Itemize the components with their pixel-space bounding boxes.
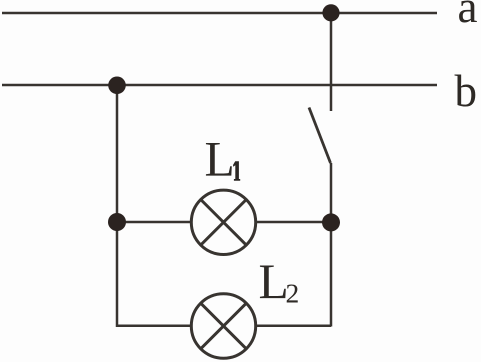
svg-text:a: a [458,0,478,32]
svg-text:b: b [455,66,478,116]
svg-text:2: 2 [286,277,300,308]
svg-text:L: L [205,131,235,186]
svg-text:L: L [259,254,289,309]
